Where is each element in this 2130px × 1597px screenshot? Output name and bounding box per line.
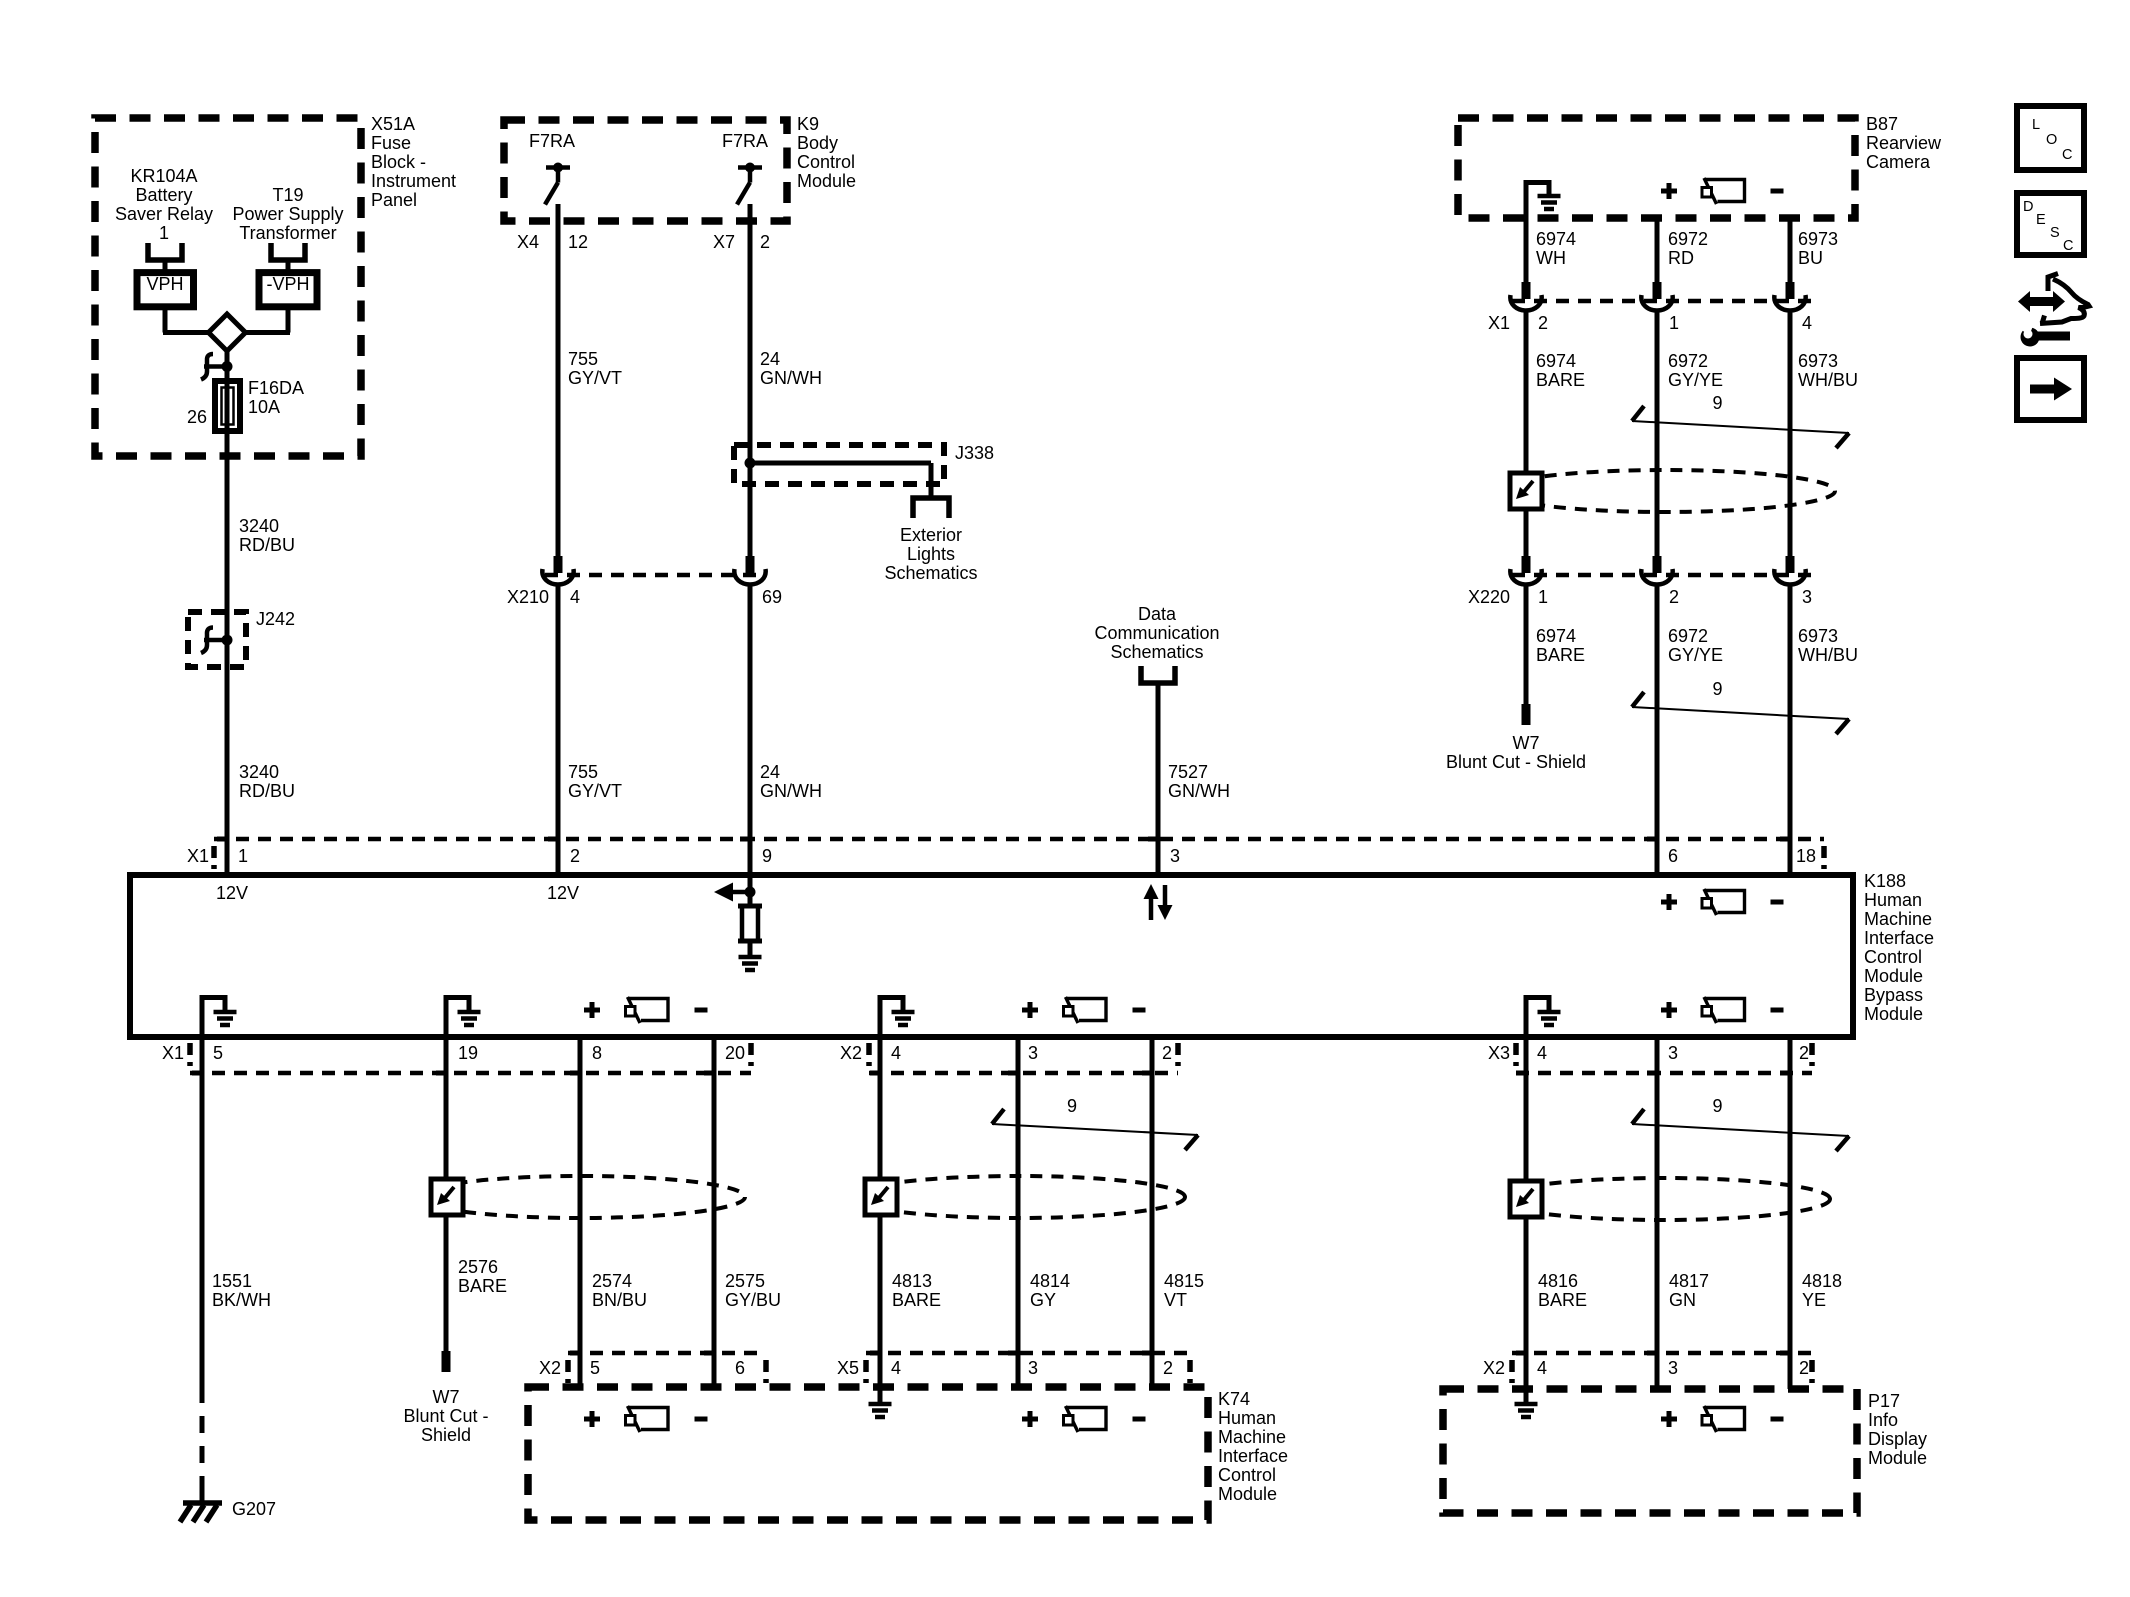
wire 755 X210 to K188 pin X1-2 xyxy=(556,585,561,875)
svg-text:3240: 3240 xyxy=(239,762,279,782)
svg-text:12: 12 xyxy=(568,232,588,252)
svg-text:19: 19 xyxy=(458,1043,478,1063)
svg-text:4: 4 xyxy=(570,587,580,607)
connector row X210 xyxy=(545,573,765,578)
svg-text:Module: Module xyxy=(1864,966,1923,986)
wire 4817 K188 to P17 xyxy=(1655,1037,1660,1389)
wire 6974 X1 to shield xyxy=(1524,311,1529,473)
svg-text:3: 3 xyxy=(1028,1043,1038,1063)
wire tick at K188 bottom row x=580 xyxy=(570,1071,582,1076)
svg-text:X7: X7 xyxy=(713,232,735,252)
svg-text:24: 24 xyxy=(760,349,780,369)
svg-text:C: C xyxy=(2062,147,2072,163)
internal ground P17 X2-4 xyxy=(1515,1402,1538,1407)
twisted pair 9 (X2 pair) xyxy=(992,1124,1198,1135)
svg-text:Lights: Lights xyxy=(907,544,955,564)
svg-text:4813: 4813 xyxy=(892,1271,932,1291)
svg-text:2: 2 xyxy=(760,232,770,252)
wire 4813 K188 to K74 ground xyxy=(878,1037,883,1404)
internal camera icon K74 X5 xyxy=(1022,1417,1038,1422)
wire tick at K188 bottom row x=880 xyxy=(870,1071,882,1076)
internal camera icon K74 X2 xyxy=(584,1417,600,1422)
module K188 box xyxy=(130,875,1853,1037)
legend deer crossing icon xyxy=(2026,297,2057,306)
internal camera icon pins X2-3/2 xyxy=(1022,1008,1038,1013)
svg-text:VT: VT xyxy=(1164,1290,1187,1310)
svg-text:Machine: Machine xyxy=(1218,1427,1286,1447)
svg-text:X2: X2 xyxy=(1483,1358,1505,1378)
svg-text:9: 9 xyxy=(1712,393,1722,413)
wire tick at K188 bottom row x=1657 xyxy=(1647,1071,1659,1076)
svg-text:4: 4 xyxy=(1537,1358,1547,1378)
svg-text:5: 5 xyxy=(213,1043,223,1063)
wire 4816 K188 to P17 ground xyxy=(1524,1037,1529,1404)
svg-text:Module: Module xyxy=(1218,1484,1277,1504)
svg-text:2576: 2576 xyxy=(458,1257,498,1277)
svg-text:-VPH: -VPH xyxy=(266,274,309,294)
svg-text:2: 2 xyxy=(570,846,580,866)
internal camera icon pins 6/18 xyxy=(1661,900,1677,905)
svg-text:10A: 10A xyxy=(248,397,280,417)
svg-text:GN/WH: GN/WH xyxy=(760,368,822,388)
svg-text:1: 1 xyxy=(1669,313,1679,333)
svg-text:X4: X4 xyxy=(517,232,539,252)
svg-text:9: 9 xyxy=(1712,679,1722,699)
connector row X2 of K74 xyxy=(568,1351,758,1356)
wire tick at K188 bottom row x=1152 xyxy=(1142,1071,1154,1076)
svg-text:O: O xyxy=(2046,132,2057,148)
svg-text:K74: K74 xyxy=(1218,1389,1250,1409)
internal ground K74 X5-4 xyxy=(869,1402,892,1407)
svg-text:X1: X1 xyxy=(162,1043,184,1063)
svg-text:1: 1 xyxy=(1538,587,1548,607)
wire tick at K188 bottom row x=446 xyxy=(436,1071,448,1076)
svg-text:Panel: Panel xyxy=(371,190,417,210)
wire 24 K9 to X210 xyxy=(748,204,753,556)
svg-text:Transformer: Transformer xyxy=(239,223,336,243)
svg-text:G207: G207 xyxy=(232,1499,276,1519)
connector row X220 xyxy=(1512,573,1812,578)
svg-text:755: 755 xyxy=(568,349,598,369)
svg-text:12V: 12V xyxy=(547,883,579,903)
svg-text:WH/BU: WH/BU xyxy=(1798,370,1858,390)
svg-text:2574: 2574 xyxy=(592,1271,632,1291)
rearview camera B87 dashed box xyxy=(1458,118,1855,218)
internal up/down arrows at pin 3 xyxy=(1149,898,1154,920)
wire 6974 X220 to blunt cut xyxy=(1524,585,1529,704)
connector row X2 of P17 xyxy=(1512,1351,1812,1356)
svg-text:Block -: Block - xyxy=(371,152,426,172)
svg-text:VPH: VPH xyxy=(146,274,183,294)
terminal VPH xyxy=(137,273,194,307)
svg-text:6974: 6974 xyxy=(1536,626,1576,646)
wire tick at K188 bottom row x=1018 xyxy=(1008,1071,1020,1076)
svg-text:Rearview: Rearview xyxy=(1866,133,1942,153)
splice clip at fuse xyxy=(222,361,233,372)
wire 6973 X1 to X220 xyxy=(1788,311,1793,556)
connector fork T19 pin xyxy=(271,243,305,260)
svg-text:Instrument: Instrument xyxy=(371,171,456,191)
wire J338 tap to exterior lights xyxy=(750,461,931,466)
wire 755 K9 to X210 xyxy=(556,204,561,556)
svg-text:4816: 4816 xyxy=(1538,1271,1578,1291)
svg-text:3: 3 xyxy=(1668,1043,1678,1063)
svg-text:9: 9 xyxy=(1067,1096,1077,1116)
wire tick at K188 X1 row x=227 xyxy=(217,837,229,842)
connector cup X1-1 xyxy=(1653,282,1662,299)
svg-text:1551: 1551 xyxy=(212,1271,252,1291)
svg-text:X2: X2 xyxy=(539,1358,561,1378)
svg-text:755: 755 xyxy=(568,762,598,782)
svg-text:Communication: Communication xyxy=(1094,623,1219,643)
wire tick at K188 bottom row x=1790 xyxy=(1780,1071,1792,1076)
wire 3240 J242 to K188 pin X1-1 xyxy=(225,667,230,875)
svg-text:Control: Control xyxy=(1218,1465,1276,1485)
svg-text:GY/YE: GY/YE xyxy=(1668,645,1723,665)
connector row X1 (camera) xyxy=(1512,299,1812,304)
internal camera icon pins X3-3/2 xyxy=(1661,1008,1677,1013)
svg-text:3240: 3240 xyxy=(239,516,279,536)
svg-text:GY: GY xyxy=(1030,1290,1056,1310)
legend wrench icon xyxy=(2021,328,2040,347)
svg-text:4: 4 xyxy=(1802,313,1812,333)
fuse block X51A dashed box xyxy=(95,118,361,456)
svg-text:Body: Body xyxy=(797,133,838,153)
svg-text:1: 1 xyxy=(238,846,248,866)
svg-text:Human: Human xyxy=(1864,890,1922,910)
svg-text:BARE: BARE xyxy=(1538,1290,1587,1310)
connector cup X1-4 xyxy=(1786,282,1795,299)
svg-text:3: 3 xyxy=(1668,1358,1678,1378)
svg-text:24: 24 xyxy=(760,762,780,782)
wire tick at K188 X1 row x=558 xyxy=(548,837,560,842)
twisted pair 9 (camera lower) xyxy=(1632,707,1849,719)
svg-text:GY/YE: GY/YE xyxy=(1668,370,1723,390)
svg-text:20: 20 xyxy=(725,1043,745,1063)
svg-text:Data: Data xyxy=(1138,604,1177,624)
connector cup X210-4 xyxy=(554,556,563,573)
svg-text:6973: 6973 xyxy=(1798,351,1838,371)
svg-text:C: C xyxy=(2063,238,2073,254)
svg-text:Battery: Battery xyxy=(135,185,192,205)
wire 3240 fuse to J242 xyxy=(225,431,230,612)
svg-text:4817: 4817 xyxy=(1669,1271,1709,1291)
svg-text:S: S xyxy=(2050,225,2060,241)
svg-text:3: 3 xyxy=(1802,587,1812,607)
svg-text:Interface: Interface xyxy=(1864,928,1934,948)
blunt cut W7 (camera shield) xyxy=(1522,704,1531,725)
svg-text:Fuse: Fuse xyxy=(371,133,411,153)
svg-text:Shield: Shield xyxy=(421,1425,471,1445)
wire diamond to fuse xyxy=(225,351,230,382)
shield drain (2576) xyxy=(417,1176,745,1218)
connector cup X210-69 xyxy=(746,556,755,573)
connector row X2 of K188 (bottom) xyxy=(869,1071,1178,1076)
svg-text:6973: 6973 xyxy=(1798,626,1838,646)
svg-text:GY/VT: GY/VT xyxy=(568,368,622,388)
connector row X1 of K188 (top) xyxy=(214,837,1824,842)
connector row X3 of K188 (bottom) xyxy=(1516,1071,1812,1076)
wire 1551 K188 to G207 xyxy=(200,1037,205,1386)
svg-text:2: 2 xyxy=(1162,1043,1172,1063)
wire 6972 X220 to K188 pin X1-6 xyxy=(1655,585,1660,875)
svg-text:BARE: BARE xyxy=(1536,370,1585,390)
svg-text:WH: WH xyxy=(1536,248,1566,268)
svg-text:T19: T19 xyxy=(272,185,303,205)
svg-text:BN/BU: BN/BU xyxy=(592,1290,647,1310)
svg-text:K9: K9 xyxy=(797,114,819,134)
terminal -VPH xyxy=(259,273,317,307)
svg-text:RD: RD xyxy=(1668,248,1694,268)
wire 2574 K188 to K74 xyxy=(578,1037,583,1390)
svg-text:B87: B87 xyxy=(1866,114,1898,134)
svg-text:Exterior: Exterior xyxy=(900,525,962,545)
svg-text:Control: Control xyxy=(1864,947,1922,967)
ground symbol inside B87 xyxy=(1524,180,1529,218)
svg-text:6973: 6973 xyxy=(1798,229,1838,249)
ground G207 xyxy=(200,1491,205,1503)
svg-text:Camera: Camera xyxy=(1866,152,1931,172)
svg-text:GN/WH: GN/WH xyxy=(1168,781,1230,801)
svg-text:K188: K188 xyxy=(1864,871,1906,891)
svg-text:BK/WH: BK/WH xyxy=(212,1290,271,1310)
svg-text:6974: 6974 xyxy=(1536,351,1576,371)
wire 6974 B87 to X1 xyxy=(1524,218,1529,282)
svg-text:BARE: BARE xyxy=(1536,645,1585,665)
svg-text:69: 69 xyxy=(762,587,782,607)
wire 6972 X1 to X220 xyxy=(1655,311,1660,556)
svg-text:F16DA: F16DA xyxy=(248,378,304,398)
svg-text:W7: W7 xyxy=(1513,733,1540,753)
connector cup X220-1 xyxy=(1522,556,1531,573)
svg-text:2: 2 xyxy=(1799,1358,1809,1378)
svg-text:GY/BU: GY/BU xyxy=(725,1290,781,1310)
off-page bracket exterior lights xyxy=(913,498,949,518)
svg-text:2: 2 xyxy=(1799,1043,1809,1063)
internal resistor at pin 9 xyxy=(742,906,758,941)
svg-text:4818: 4818 xyxy=(1802,1271,1842,1291)
internal camera icon pins 8/20 xyxy=(584,1008,600,1013)
svg-text:Module: Module xyxy=(1864,1004,1923,1024)
svg-text:9: 9 xyxy=(1712,1096,1722,1116)
svg-text:4: 4 xyxy=(891,1043,901,1063)
svg-text:J338: J338 xyxy=(955,443,994,463)
internal ground pin X2-4 xyxy=(878,995,883,1037)
svg-text:1: 1 xyxy=(159,223,169,243)
svg-text:W7: W7 xyxy=(433,1387,460,1407)
wire 6974 shield to X220 xyxy=(1524,509,1529,556)
svg-text:6972: 6972 xyxy=(1668,351,1708,371)
svg-text:Blunt Cut -: Blunt Cut - xyxy=(403,1406,488,1426)
svg-text:Display: Display xyxy=(1868,1429,1927,1449)
svg-text:X1: X1 xyxy=(187,846,209,866)
svg-text:GN/WH: GN/WH xyxy=(760,781,822,801)
shield drain (4816) xyxy=(1496,1178,1830,1220)
svg-text:Schematics: Schematics xyxy=(884,563,977,583)
internal camera icon P17 xyxy=(1661,1417,1677,1422)
svg-text:18: 18 xyxy=(1796,846,1816,866)
svg-text:Interface: Interface xyxy=(1218,1446,1288,1466)
svg-text:E: E xyxy=(2036,212,2046,228)
svg-text:3: 3 xyxy=(1170,846,1180,866)
connector cup X220-3 xyxy=(1786,556,1795,573)
wire 4815 K188 to K74 xyxy=(1150,1037,1155,1390)
svg-text:J242: J242 xyxy=(256,609,295,629)
svg-text:RD/BU: RD/BU xyxy=(239,535,295,555)
connector fork KR104A pin xyxy=(148,243,182,260)
svg-text:YE: YE xyxy=(1802,1290,1826,1310)
svg-text:Saver Relay: Saver Relay xyxy=(115,204,213,224)
svg-text:WH/BU: WH/BU xyxy=(1798,645,1858,665)
wire 4814 K188 to K74 xyxy=(1016,1037,1021,1390)
svg-text:RD/BU: RD/BU xyxy=(239,781,295,801)
connector cup X220-2 xyxy=(1653,556,1662,573)
wire 7527 to K188 pin X1-3 xyxy=(1156,683,1161,875)
svg-text:4815: 4815 xyxy=(1164,1271,1204,1291)
wire VPH to diamond xyxy=(163,307,168,333)
svg-text:4814: 4814 xyxy=(1030,1271,1070,1291)
svg-text:Power Supply: Power Supply xyxy=(232,204,343,224)
wire 2576 K188 to blunt cut xyxy=(444,1037,449,1351)
svg-text:X220: X220 xyxy=(1468,587,1510,607)
svg-text:12V: 12V xyxy=(216,883,248,903)
internal ground pin X3-4 xyxy=(1524,995,1529,1037)
svg-text:7527: 7527 xyxy=(1168,762,1208,782)
svg-text:6974: 6974 xyxy=(1536,229,1576,249)
svg-text:8: 8 xyxy=(592,1043,602,1063)
svg-text:KR104A: KR104A xyxy=(130,166,197,186)
legend forward arrow box xyxy=(2017,358,2084,420)
svg-text:Human: Human xyxy=(1218,1408,1276,1428)
body control module K9 dashed box xyxy=(504,120,787,221)
wire 2575 K188 to K74 xyxy=(712,1037,717,1390)
svg-text:Control: Control xyxy=(797,152,855,172)
svg-text:6: 6 xyxy=(1668,846,1678,866)
HMI control module K74 dashed box xyxy=(528,1387,1208,1520)
svg-text:BARE: BARE xyxy=(458,1276,507,1296)
svg-text:Blunt Cut - Shield: Blunt Cut - Shield xyxy=(1446,752,1586,772)
svg-text:2: 2 xyxy=(1669,587,1679,607)
junction diamond xyxy=(209,314,246,351)
twisted pair 9 (camera upper) xyxy=(1632,421,1849,433)
svg-text:X51A: X51A xyxy=(371,114,415,134)
twisted pair 9 (X3 pair) xyxy=(1632,1124,1849,1136)
connector row X1 of K188 (bottom) xyxy=(190,1071,751,1076)
wire 4818 K188 to P17 xyxy=(1788,1037,1793,1389)
internal ground below resistor xyxy=(748,941,753,957)
internal ground pin X1-5 xyxy=(200,995,205,1037)
svg-text:F7RA: F7RA xyxy=(529,131,575,151)
svg-text:2: 2 xyxy=(1538,313,1548,333)
svg-text:Module: Module xyxy=(797,171,856,191)
svg-text:6972: 6972 xyxy=(1668,229,1708,249)
wire 6973 X220 to K188 pin X1-18 xyxy=(1788,585,1793,875)
svg-text:Module: Module xyxy=(1868,1448,1927,1468)
splice J338 xyxy=(734,445,944,484)
connector row X5 of K74 xyxy=(866,1351,1190,1356)
svg-text:GN: GN xyxy=(1669,1290,1696,1310)
wire tick at K188 X1 row x=1790 xyxy=(1780,837,1792,842)
wire 24 X210 to K188 pin X1-9 xyxy=(748,585,753,875)
svg-text:X5: X5 xyxy=(837,1358,859,1378)
svg-text:2575: 2575 xyxy=(725,1271,765,1291)
svg-text:3: 3 xyxy=(1028,1358,1038,1378)
splice J242 xyxy=(188,612,246,667)
wire tick at K188 bottom row x=1526 xyxy=(1516,1071,1528,1076)
wire -VPH to diamond xyxy=(286,307,291,333)
svg-text:Machine: Machine xyxy=(1864,909,1932,929)
svg-text:P17: P17 xyxy=(1868,1391,1900,1411)
wire tick at K188 X1 row x=1158 xyxy=(1148,837,1160,842)
blunt cut W7 (HMI shield) xyxy=(442,1351,451,1372)
svg-text:Bypass: Bypass xyxy=(1864,985,1923,1005)
svg-text:BU: BU xyxy=(1798,248,1823,268)
wire tick at K188 X1 row x=1657 xyxy=(1647,837,1659,842)
svg-text:X3: X3 xyxy=(1488,1043,1510,1063)
svg-text:X2: X2 xyxy=(840,1043,862,1063)
internal ground pin 19 xyxy=(444,995,449,1037)
svg-text:6: 6 xyxy=(735,1358,745,1378)
wire tick at K188 X1 row x=750 xyxy=(740,837,752,842)
svg-text:9: 9 xyxy=(762,846,772,866)
svg-text:6972: 6972 xyxy=(1668,626,1708,646)
svg-text:4: 4 xyxy=(891,1358,901,1378)
wire 6973 B87 to X1 xyxy=(1788,218,1793,282)
off-page bracket data communication xyxy=(1141,666,1175,683)
legend LOC box xyxy=(2017,106,2084,170)
svg-text:26: 26 xyxy=(187,407,207,427)
svg-text:D: D xyxy=(2023,199,2033,215)
shield drain B87 xyxy=(1496,470,1835,512)
svg-text:L: L xyxy=(2032,117,2040,133)
camera signal icon inside B87 xyxy=(1661,189,1677,194)
shield drain (4813) xyxy=(851,1176,1185,1218)
svg-text:GY/VT: GY/VT xyxy=(568,781,622,801)
svg-text:2: 2 xyxy=(1163,1358,1173,1378)
svg-text:4: 4 xyxy=(1537,1043,1547,1063)
svg-text:5: 5 xyxy=(590,1358,600,1378)
svg-text:X210: X210 xyxy=(507,587,549,607)
svg-text:BARE: BARE xyxy=(892,1290,941,1310)
wire tick at K188 bottom row x=714 xyxy=(704,1071,716,1076)
svg-text:Info: Info xyxy=(1868,1410,1898,1430)
legend DESC box xyxy=(2017,193,2084,255)
internal arrow at pin 9 xyxy=(748,875,753,906)
connector cup X1-2 xyxy=(1522,282,1531,299)
svg-text:Schematics: Schematics xyxy=(1110,642,1203,662)
wire 6972 B87 to X1 xyxy=(1655,218,1660,282)
svg-text:X1: X1 xyxy=(1488,313,1510,333)
fuse F16DA 10A xyxy=(215,381,240,431)
svg-text:F7RA: F7RA xyxy=(722,131,768,151)
info display module P17 dashed box xyxy=(1443,1389,1857,1513)
wire tick at K188 bottom row x=202 xyxy=(192,1071,204,1076)
